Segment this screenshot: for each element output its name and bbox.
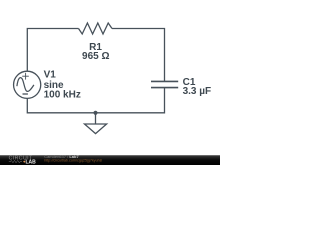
ground stub wire bbox=[95, 113, 97, 124]
CircuitLab logo: resistor squiggle bbox=[9, 160, 22, 162]
V1 circle body bbox=[14, 71, 41, 98]
resistor R1 bbox=[79, 23, 113, 34]
footer bar bbox=[0, 155, 220, 165]
capacitor C1 top plate bbox=[151, 80, 178, 82]
voltage source V1 bbox=[14, 71, 41, 98]
svg-text:http://circuitlab.com/cgq25jg7: http://circuitlab.com/cgq25jg7kyuh8 bbox=[44, 159, 102, 163]
svg-text:965 Ω: 965 Ω bbox=[82, 51, 109, 62]
capacitor C1 bottom plate bbox=[151, 87, 178, 89]
svg-text:100 kHz: 100 kHz bbox=[44, 90, 81, 101]
CircuitLab logo: diamond bbox=[23, 160, 25, 162]
node junction dot bbox=[93, 111, 97, 115]
V1 minus polarity mark bbox=[23, 93, 28, 95]
wire R1 right to C1 top (top + right) bbox=[112, 29, 165, 82]
ground bbox=[85, 113, 107, 134]
wire C1 bottom to ground node bbox=[96, 88, 165, 113]
wire ground node to V1 bottom bbox=[27, 98, 95, 112]
wire V1 top to R1 left (left + top) bbox=[27, 29, 78, 72]
ground triangle bbox=[85, 124, 107, 134]
V1 plus polarity mark bbox=[22, 73, 29, 80]
svg-text:V1: V1 bbox=[44, 69, 57, 80]
V1 sine waveform bbox=[17, 78, 34, 92]
svg-text:3.3 µF: 3.3 µF bbox=[183, 86, 212, 97]
svg-text:LAB: LAB bbox=[26, 159, 37, 165]
